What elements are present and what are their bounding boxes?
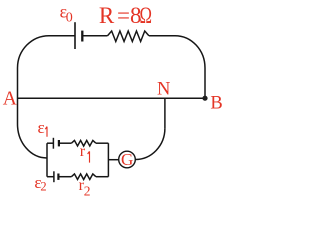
svg-text:B: B: [210, 93, 222, 113]
label r1: [80, 143, 90, 162]
wire E2 to r2: [58, 176, 71, 178]
galvanometer G circle: [119, 151, 136, 168]
resistor r1 zigzag: [71, 140, 96, 146]
wire right bus to galvanometer: [108, 159, 118, 161]
wire A to B horizontal: [18, 97, 206, 99]
wire G to N curve: [135, 128, 165, 159]
svg-text:r: r: [80, 143, 86, 160]
wire left bus to E1: [47, 142, 53, 144]
svg-text:A: A: [3, 88, 17, 109]
label E1: [38, 118, 48, 137]
wire r2 to right bus: [96, 176, 109, 178]
battery E1 short plate: [58, 140, 60, 146]
label E0: [60, 2, 73, 26]
left bus wire: [46, 143, 48, 177]
svg-text:=: =: [117, 3, 130, 28]
wire resistor to top-right corner down to B: [149, 36, 205, 98]
battery E0 tall plate: [74, 22, 76, 49]
battery E2 short plate: [57, 174, 59, 180]
node B dot: [202, 96, 207, 101]
wire left bus to E2: [47, 176, 54, 178]
label r2: [79, 177, 91, 198]
svg-text:Ω: Ω: [140, 4, 152, 29]
resistor R zigzag: [108, 31, 149, 42]
svg-text:N: N: [157, 79, 170, 99]
wire r1 to right bus: [96, 142, 109, 144]
wire top-left corner from A vertical up to top rail: [18, 36, 76, 124]
right bus wire: [107, 143, 109, 177]
battery E1 tall plate: [52, 138, 54, 149]
wire battery to resistor R: [82, 35, 107, 37]
svg-text:ε: ε: [38, 118, 45, 137]
battery E0 short plate: [81, 31, 83, 42]
wire N vertical: [164, 98, 166, 128]
svg-text:0: 0: [66, 11, 73, 26]
svg-text:2: 2: [40, 180, 46, 194]
resistor r2 zigzag: [71, 174, 96, 180]
wire E1 to r1: [59, 142, 72, 144]
svg-text:G: G: [121, 150, 133, 169]
label R = 8 ohm: [99, 3, 152, 29]
battery E2 tall plate: [53, 171, 55, 182]
svg-text:2: 2: [84, 184, 91, 199]
label E2: [34, 173, 46, 193]
wire bottom-left curve from A down to battery bank: [18, 124, 48, 158]
svg-text:R: R: [99, 3, 115, 28]
